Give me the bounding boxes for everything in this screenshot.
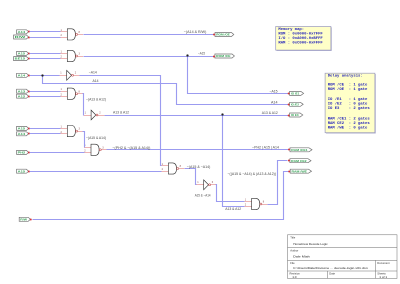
- output port RAM /WE: [288, 169, 311, 173]
- wire net ~(A15 & ~A14) from U8 to U9: [185, 169, 197, 185]
- wire PH2 to U7 pin 5: [30, 152, 85, 154]
- junction on net ~A15: [186, 54, 188, 56]
- svg-text:~PH2 | A15 | A14: ~PH2 | A15 | A14: [252, 146, 279, 150]
- svg-text:A15: A15: [18, 127, 26, 131]
- svg-text:File: File: [290, 261, 295, 265]
- svg-text:ROM /CE : 1 gate: ROM /CE : 1 gate: [328, 82, 368, 87]
- input port R/W: [14, 35, 30, 39]
- svg-text:1.0: 1.0: [292, 275, 297, 279]
- output port ROM /CE: [213, 54, 234, 58]
- wire A14 to U1 pin 1: [30, 31, 61, 33]
- input port A15: [17, 126, 30, 130]
- svg-text:Homebrew Decode Logic: Homebrew Decode Logic: [293, 242, 328, 246]
- inverter U3: [59, 70, 80, 80]
- svg-text:A14: A14: [93, 79, 99, 83]
- input port A14: [17, 132, 30, 136]
- wire BE15 to U2 pin 2: [30, 58, 61, 60]
- svg-text:~A15: ~A15: [198, 51, 205, 55]
- svg-text:R/W: R/W: [15, 35, 26, 39]
- output port ROM /OE: [213, 33, 234, 37]
- wire net ~(A13 & A12) from U4 down to U5: [83, 94, 84, 116]
- svg-text:RAM /CE1: RAM /CE1: [291, 148, 308, 152]
- svg-text:~A14: ~A14: [89, 70, 97, 74]
- output port IO E3: [288, 113, 303, 117]
- svg-text:Memory map:: Memory map:: [278, 28, 304, 32]
- wire net A13 & A12 branch down to U10 pin 2: [223, 116, 245, 207]
- note box: delay analysis: [325, 73, 376, 133]
- junction on net A14: [41, 74, 43, 76]
- svg-text:IO E3: IO E3: [291, 113, 299, 117]
- svg-text:A14: A14: [271, 100, 278, 104]
- svg-text:~((A15 & ~A14) & (A13 & A12)): ~((A15 & ~A14) & (A13 & A12)): [228, 172, 277, 176]
- svg-text:A12: A12: [18, 94, 26, 98]
- svg-text:R/W: R/W: [20, 217, 27, 221]
- svg-text:A14: A14: [18, 30, 26, 34]
- wire A14 to U3 input: [30, 75, 60, 77]
- nand gate U2: [60, 50, 83, 61]
- svg-text:A13 & A12: A13 & A12: [225, 207, 241, 211]
- output port IO /E1: [288, 91, 304, 95]
- wire A13 to U4 pin 1: [30, 91, 61, 93]
- svg-text:A13: A13: [18, 89, 26, 93]
- svg-text:IO /E2 : 0 gate: IO /E2 : 0 gate: [328, 102, 368, 107]
- svg-text:Dale Miah: Dale Miah: [293, 255, 310, 259]
- svg-text:A13 & A12: A13 & A12: [262, 111, 278, 115]
- svg-text:BE15: BE15: [15, 57, 26, 61]
- wire A15 to U8 pin 10: [30, 171, 162, 173]
- note box: memory map: [276, 27, 332, 51]
- svg-text:A15: A15: [18, 169, 26, 173]
- input port A13: [17, 89, 30, 93]
- svg-text:1 of 1: 1 of 1: [379, 275, 387, 279]
- wire net ~(PH2 & ~(A15 & A14)) from U7 to port RAM /CE1: [107, 149, 289, 151]
- inverter U5: [84, 110, 105, 120]
- wire A15 to U6 pin 1: [30, 128, 61, 130]
- wire A12 to U4 pin 2: [30, 96, 61, 98]
- svg-text:A14: A14: [18, 132, 26, 136]
- svg-text:~(A13 & A12): ~(A13 & A12): [86, 98, 106, 102]
- nand gate U8: [161, 163, 184, 174]
- inverter U9: [196, 180, 215, 190]
- output port RAM CE2: [288, 159, 311, 163]
- wire net A13 & A12 from U5 to port IO E3: [105, 115, 289, 117]
- svg-text:A13 & A12: A13 & A12: [113, 111, 129, 115]
- output port IO /E2: [288, 102, 304, 106]
- wire A14 to U6 pin 2: [30, 133, 61, 135]
- svg-text:~(A14 & R/W): ~(A14 & R/W): [184, 30, 207, 34]
- wire net ~A15 branch down to port IO /E1: [188, 57, 289, 94]
- svg-text:RAM /WE : 0 gate: RAM /WE : 0 gate: [328, 125, 368, 130]
- svg-text:RAM /CE1 : 2 gates: RAM /CE1 : 2 gates: [328, 116, 371, 121]
- nand gate U1: [60, 29, 83, 40]
- input port A15: [17, 51, 30, 55]
- input port R/W: [19, 217, 32, 221]
- svg-text:IO /E1: IO /E1: [291, 92, 300, 96]
- svg-text:I/O : 0xA000-0xBFFF: I/O : 0xA000-0xBFFF: [278, 36, 323, 41]
- svg-text:RAM CE2 : 2 gates: RAM CE2 : 2 gates: [328, 122, 371, 126]
- svg-text:A15: A15: [18, 52, 26, 56]
- svg-text:RAM /WE: RAM /WE: [292, 169, 308, 173]
- output port RAM /CE1: [288, 148, 312, 152]
- wire net A14 branch to port IO /E2: [43, 76, 289, 105]
- wire net ~((A15 & ~A14) & (A13 & A12)) from U10 up to port RAM CE2: [268, 161, 288, 205]
- svg-text:IO /E1 : 1 gate: IO /E1 : 1 gate: [328, 97, 368, 102]
- input port A14: [17, 73, 30, 77]
- svg-text:ROM /OE : 1 gate: ROM /OE : 1 gate: [328, 87, 368, 92]
- svg-text:A14: A14: [18, 73, 26, 77]
- svg-text:C:\Users\Dale\Docume ... decod: C:\Users\Dale\Docume ... decode-logic-v0…: [293, 266, 368, 270]
- svg-text:ROM /OE: ROM /OE: [216, 33, 230, 37]
- svg-text:IO E3 : 2 gates: IO E3 : 2 gates: [328, 107, 371, 111]
- wire net ~A14 from U3 down to U8 pin 9: [80, 76, 162, 166]
- title block: [288, 235, 398, 279]
- input port A15: [17, 169, 30, 173]
- svg-text:A15 & ~A14: A15 & ~A14: [195, 193, 211, 197]
- nand gate U6: [60, 126, 83, 137]
- wire net ~(A14 & R/W) from U1 to port ROM /OE: [84, 34, 214, 36]
- svg-text:Title: Title: [290, 236, 295, 240]
- nand gate U7: [84, 144, 107, 155]
- svg-text:~A15: ~A15: [270, 89, 278, 93]
- junction on net A13 & A12: [221, 113, 223, 115]
- svg-text:RAM : 0xC000-0xFFFF: RAM : 0xC000-0xFFFF: [278, 41, 323, 45]
- svg-text:Author: Author: [290, 248, 298, 252]
- svg-text:~(PH2 & ~(A15 & A14)): ~(PH2 & ~(A15 & A14)): [112, 146, 150, 150]
- svg-text:~(A15 & ~A14): ~(A15 & ~A14): [187, 165, 211, 169]
- input port BE15: [14, 57, 30, 61]
- svg-text:~(A15 & A14): ~(A15 & A14): [86, 136, 106, 140]
- svg-text:RAM CE2: RAM CE2: [291, 159, 307, 163]
- svg-text:ROM /CE: ROM /CE: [216, 54, 231, 58]
- input port PH2: [17, 150, 30, 154]
- input port A14: [17, 30, 30, 34]
- svg-text:PH2: PH2: [18, 151, 26, 155]
- wire net A15 & ~A14 from U9 to U10 pin 1: [216, 185, 245, 202]
- nand gate U10: [245, 198, 268, 209]
- wire A15 to U2 pin 1: [30, 53, 61, 55]
- svg-text:Date: Date: [329, 271, 335, 275]
- svg-text:Delay analysis:: Delay analysis:: [328, 73, 363, 78]
- wire R/W to U1 pin 2: [30, 37, 61, 39]
- nand gate U4: [60, 88, 83, 99]
- svg-text:IO /E2: IO /E2: [291, 102, 300, 106]
- wire net ~A15 from U2 to port ROM /CE: [84, 56, 214, 58]
- svg-text:ROM : 0x0000-0x7FFF: ROM : 0x0000-0x7FFF: [278, 32, 323, 36]
- wire net ~(A15 & A14) from U6 down to U7 pin 4: [83, 132, 85, 148]
- input port A12: [17, 94, 30, 98]
- wire R/W long run to port RAM /WE: [33, 172, 289, 220]
- svg-text:Document: Document: [377, 261, 390, 265]
